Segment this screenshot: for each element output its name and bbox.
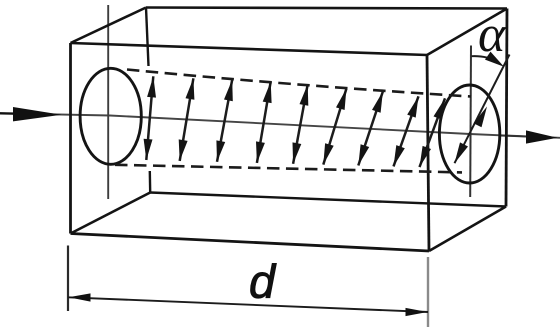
exit-face vertical centre line	[469, 46, 472, 198]
box back-top edge	[146, 8, 507, 9]
box back-bottom edge	[150, 193, 506, 207]
box back-left vertical edge lower part	[149, 171, 152, 193]
polarization vector arrow 9	[420, 98, 446, 167]
svg-text:α: α	[478, 6, 507, 63]
box front-right vertical edge	[427, 55, 429, 251]
polarization vector arrow 2	[179, 78, 195, 161]
box front-top edge	[71, 43, 428, 55]
polarization vector arrow 4	[256, 82, 272, 163]
box top-right slant edge	[427, 9, 507, 56]
svg-text:d: d	[249, 255, 277, 308]
box back-right vertical edge	[506, 9, 507, 207]
box front-bottom edge	[71, 234, 430, 252]
angle alpha arc arrow	[472, 52, 505, 67]
polarization vector arrow 3	[216, 80, 232, 162]
incoming ray arrow	[0, 107, 62, 121]
dimension extension line right	[427, 257, 429, 327]
exit-face circle (ellipse)	[439, 85, 499, 183]
box bottom-left slant edge	[71, 193, 151, 234]
polarization vector arrow 8	[394, 96, 419, 166]
box bottom-right slant edge	[429, 207, 506, 252]
polarization vector arrow 6	[323, 89, 346, 165]
lower dashed envelope line	[115, 165, 462, 173]
rotated polarization double-arrow in exit face	[455, 55, 510, 164]
entrance-face vertical centre line	[107, 5, 109, 199]
dimension line d with arrowheads	[68, 293, 428, 316]
dimension extension line left	[67, 246, 69, 312]
box back-left vertical edge upper part	[146, 8, 149, 67]
polarization vector arrow 5	[293, 84, 309, 164]
entrance-face circle (ellipse)	[80, 68, 141, 164]
beam axis line	[0, 113, 560, 138]
polarization vector arrow 1	[144, 76, 156, 160]
upper dashed envelope line	[127, 70, 471, 97]
polarization vector arrow 7	[358, 91, 383, 165]
outgoing ray arrow	[500, 130, 558, 143]
box top-left slant edge	[71, 8, 147, 44]
box front-left vertical edge	[69, 43, 72, 234]
